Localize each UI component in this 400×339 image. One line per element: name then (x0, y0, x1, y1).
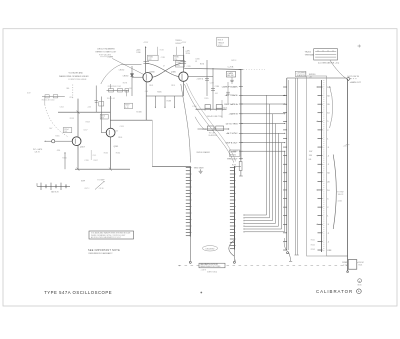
svg-text:.001: .001 (215, 93, 218, 95)
svg-text:SW 1F: SW 1F (231, 60, 236, 62)
svg-text:(VERT 180): (VERT 180) (207, 271, 217, 273)
svg-text:R164: R164 (116, 152, 120, 154)
svg-text:R243: R243 (311, 249, 315, 251)
svg-text:R249: R249 (342, 262, 348, 264)
svg-text:C185: C185 (187, 66, 191, 68)
svg-text:WAVEFORMS OBTAINED UNDER: WAVEFORMS OBTAINED UNDER (59, 75, 89, 78)
svg-text:INT +GATE: INT +GATE (33, 148, 43, 151)
svg-text:R155: R155 (55, 135, 59, 137)
svg-text:OFF: OFF (327, 250, 332, 252)
svg-text:+GATE B: +GATE B (228, 113, 238, 116)
svg-text:R196: R196 (223, 108, 227, 110)
svg-text:R183: R183 (160, 49, 164, 51)
svg-text:VOLTAGES AND: VOLTAGES AND (69, 71, 84, 74)
svg-text:DELAY LINE T180: DELAY LINE T180 (207, 115, 223, 118)
svg-text:C159: C159 (84, 160, 88, 162)
svg-text:R158: R158 (86, 121, 90, 123)
svg-text:+100: +100 (87, 106, 91, 108)
svg-text:+225V: +225V (181, 42, 187, 44)
svg-text:DELAYED: DELAYED (206, 247, 215, 250)
svg-text:+GATE A: +GATE A (196, 78, 204, 81)
svg-text:R180: R180 (136, 52, 140, 54)
svg-text:TRIG GATE: TRIG GATE (194, 167, 205, 170)
svg-text:DLY'D SW 30: DLY'D SW 30 (348, 76, 359, 78)
svg-text:2.7K: 2.7K (343, 265, 348, 267)
svg-text:TYPE 547A OSCILLOSCOPE: TYPE 547A OSCILLOSCOPE (44, 290, 112, 295)
svg-text:C+R B: C+R B (228, 66, 234, 68)
svg-text:-150: -150 (145, 91, 148, 93)
svg-text:SWP GATE A: SWP GATE A (224, 103, 238, 106)
svg-text:SW: SW (309, 151, 312, 153)
svg-text:BLANKING: BLANKING (297, 74, 307, 77)
svg-text:C184: C184 (215, 86, 219, 88)
svg-text:R166: R166 (118, 137, 122, 139)
svg-text:R242: R242 (311, 244, 315, 246)
svg-text:R178: R178 (123, 82, 127, 84)
svg-text:SEE IMPORTANT NOTE: SEE IMPORTANT NOTE (88, 249, 120, 252)
svg-text:DLY'D TRIG: DLY'D TRIG (226, 123, 238, 125)
svg-text:Q157: Q157 (80, 147, 85, 149)
svg-text:R241: R241 (311, 240, 315, 242)
svg-text:R181: R181 (149, 85, 153, 87)
svg-text:C186: C186 (222, 87, 226, 89)
svg-text:TK201: TK201 (305, 52, 312, 54)
svg-text:CALIBRATOR: CALIBRATOR (316, 289, 353, 294)
svg-text:CIRCUIT NUMBERS: CIRCUIT NUMBERS (97, 49, 115, 51)
svg-text:Q161: Q161 (114, 146, 119, 148)
svg-text:MULTI: MULTI (218, 40, 224, 42)
svg-text:R167: R167 (94, 160, 98, 162)
svg-text:C183: C183 (161, 57, 165, 59)
svg-text:180-2F: 180-2F (338, 194, 345, 196)
svg-text:SEL: SEL (66, 88, 69, 90)
svg-text:CAL IN: CAL IN (34, 151, 40, 154)
svg-text:SEL SW: SEL SW (227, 75, 234, 77)
svg-text:CF 30: CF 30 (99, 188, 104, 190)
svg-text:R194: R194 (200, 64, 204, 66)
svg-text:C157: C157 (83, 129, 87, 131)
svg-text:+GATE: +GATE (201, 268, 207, 271)
svg-text:TD180: TD180 (136, 111, 141, 113)
svg-text:+GATE OUT: +GATE OUT (350, 81, 362, 84)
svg-text:R185: R185 (157, 92, 161, 94)
svg-text:+ALT TRACE: +ALT TRACE (225, 94, 239, 97)
svg-text:(CW): (CW) (338, 201, 342, 203)
svg-text:CONDITIONS GIVEN: CONDITIONS GIVEN (68, 79, 87, 81)
svg-text:BAT 8.4V: BAT 8.4V (51, 191, 59, 194)
svg-text:-150: -150 (57, 150, 61, 152)
svg-text:C182: C182 (210, 82, 214, 84)
svg-text:T601: T601 (358, 265, 362, 267)
svg-text:FOR VALUES: FOR VALUES (99, 54, 112, 57)
svg-text:OUT J: OUT J (84, 188, 89, 190)
svg-text:CAL: CAL (308, 158, 312, 161)
svg-text:Q180: Q180 (150, 71, 156, 73)
svg-text:R195: R195 (204, 98, 208, 100)
svg-text:-150: -150 (128, 88, 131, 90)
svg-text:82: 82 (195, 61, 197, 63)
svg-text:(CLOSED ABOVE +5C): (CLOSED ABOVE +5C) (318, 61, 340, 64)
svg-text:R190: R190 (186, 53, 190, 55)
svg-text:C163: C163 (120, 126, 124, 128)
svg-text:R163: R163 (114, 130, 118, 132)
svg-text:R188: R188 (167, 101, 171, 103)
svg-text:SW180 WAFER: SW180 WAFER (196, 151, 210, 154)
svg-text:TO SWP: TO SWP (97, 180, 105, 182)
svg-text:REFER TO PARTS LIST: REFER TO PARTS LIST (96, 51, 118, 54)
svg-text:SEE PARTS LIST FOR: SEE PARTS LIST FOR (200, 263, 218, 266)
svg-text:THERMAL: THERMAL (305, 53, 315, 56)
svg-text:AS FOLLOWS CALIBRATOR 1 VOLT: AS FOLLOWS CALIBRATOR 1 VOLT (91, 236, 122, 239)
svg-text:1K 470 .01: 1K 470 .01 (107, 98, 115, 100)
svg-text:+225V: +225V (143, 42, 149, 44)
svg-text:CR180: CR180 (123, 75, 129, 77)
svg-text:R191: R191 (171, 85, 175, 87)
svg-text:R156: R156 (62, 158, 66, 160)
svg-text:REFERENCE DIAGRAM 2: REFERENCE DIAGRAM 2 (89, 252, 114, 255)
svg-text:R153: R153 (70, 118, 74, 120)
svg-text:R150 2.2K C150: R150 2.2K C150 (42, 100, 55, 102)
svg-text:SW180: SW180 (230, 152, 236, 154)
svg-text:SYNC: SYNC (218, 45, 223, 47)
svg-text:CR182: CR182 (119, 70, 125, 72)
svg-text:SEMICONDUCTOR TYPES: SEMICONDUCTOR TYPES (200, 266, 220, 268)
svg-text:T185: T185 (202, 129, 206, 131)
svg-text:C161: C161 (92, 155, 96, 157)
svg-text:+: + (358, 290, 360, 294)
svg-text:47: 47 (163, 65, 165, 67)
svg-text:R160 R162 C162: R160 R162 C162 (108, 86, 121, 88)
svg-text:+225: +225 (343, 146, 347, 148)
svg-text:C152: C152 (60, 106, 64, 108)
svg-text:R165: R165 (104, 153, 108, 155)
svg-text:SWP B OUT: SWP B OUT (225, 142, 238, 144)
svg-text:+ALT SYNC: +ALT SYNC (226, 132, 238, 135)
